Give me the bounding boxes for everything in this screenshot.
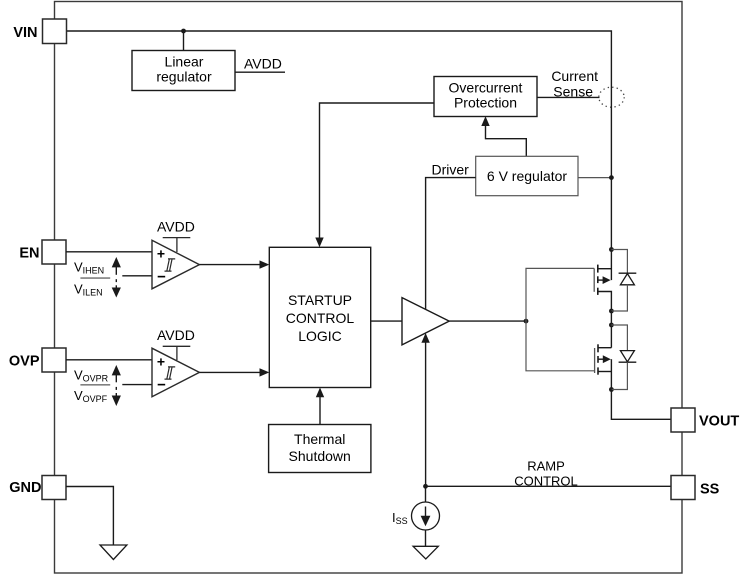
drain tap — [598, 347, 611, 349]
svg-text:Sense: Sense — [553, 84, 593, 100]
wire 6V regulator to overcurrent protection — [486, 123, 527, 156]
node ramp control junction — [423, 484, 428, 489]
source tap — [598, 292, 612, 312]
threshold rise arrow (EN) — [115, 266, 117, 275]
gate bus — [526, 268, 595, 370]
wire GND to ground symbol — [66, 487, 113, 546]
node Q2 source — [609, 387, 614, 392]
comparator U2 (EN) — [152, 240, 199, 288]
thermal shutdown block — [269, 425, 371, 473]
wire OVP to comparator + — [66, 359, 152, 361]
wire OVP comparator output — [199, 371, 262, 373]
svg-text:Protection: Protection — [454, 95, 517, 111]
startup control logic block — [269, 247, 370, 387]
net AVDD output wire — [235, 71, 285, 73]
threshold fall arrow (OVP) — [115, 393, 117, 397]
svg-text:VOVPR: VOVPR — [74, 368, 109, 384]
svg-text:ISS: ISS — [392, 510, 408, 526]
transistor Q1 (top FET) — [594, 250, 611, 312]
body tap with arrow — [598, 358, 603, 360]
node gate bus junction — [524, 319, 529, 324]
threshold fall arrow (EN) — [115, 285, 117, 289]
threshold rise arrow (OVP) — [115, 374, 117, 382]
svg-text:AVDD: AVDD — [244, 56, 282, 72]
pin GND — [42, 476, 66, 500]
wire OVP comparator - input — [122, 384, 152, 386]
svg-text:Linear: Linear — [165, 54, 204, 70]
svg-text:Overcurrent: Overcurrent — [449, 80, 523, 96]
wire buffer output to gate bus — [449, 320, 526, 322]
ground (GND pin) — [100, 545, 127, 560]
pin OVP — [42, 348, 66, 372]
svg-text:AVDD: AVDD — [157, 219, 195, 235]
6 V regulator block — [476, 156, 578, 195]
svg-text:SS: SS — [700, 482, 720, 498]
wire junction to linear regulator — [183, 31, 185, 51]
wire EN to comparator + — [66, 251, 152, 253]
svg-text:6 V regulator: 6 V regulator — [487, 168, 567, 184]
transistor Q2 (bottom FET) — [595, 325, 612, 390]
wire EN comparator output — [199, 264, 262, 266]
drain tap — [598, 268, 612, 270]
svg-text:regulator: regulator — [156, 69, 212, 85]
svg-text:Thermal: Thermal — [294, 431, 345, 447]
body tap with arrow — [598, 279, 603, 281]
wire junction to current source — [425, 486, 427, 502]
wire rail between FETs — [610, 311, 612, 325]
buffer driver triangle — [402, 298, 449, 345]
arrowhead into buffer bottom — [421, 333, 429, 343]
body-source vertical — [610, 359, 612, 389]
drain-body vertical — [610, 250, 612, 281]
channel segments — [597, 265, 599, 273]
hysteresis glyph — [165, 367, 176, 379]
channel segments — [597, 344, 599, 352]
gate bar — [594, 348, 596, 373]
svg-text:VOUT: VOUT — [699, 414, 739, 430]
body diode D2 — [611, 325, 636, 390]
svg-text:OVP: OVP — [9, 354, 40, 370]
wire overcurrent sense tap — [537, 96, 600, 98]
hysteresis glyph — [165, 259, 176, 271]
node Q1 source — [609, 309, 614, 314]
svg-text:RAMP: RAMP — [527, 459, 565, 474]
wire current source to ground — [425, 530, 427, 546]
wire rail down from sense to top FET — [610, 97, 612, 250]
ground (ISS) — [413, 546, 438, 559]
drain vertical — [610, 325, 612, 348]
gate bar — [593, 268, 595, 291]
wire driver supply to buffer — [426, 178, 476, 310]
svg-text:VILEN: VILEN — [74, 282, 103, 298]
wire ramp control to SS — [426, 485, 672, 487]
svg-text:LOGIC: LOGIC — [298, 328, 342, 344]
source tap — [598, 371, 611, 373]
pin VOUT — [671, 408, 695, 432]
svg-text:AVDD: AVDD — [157, 327, 195, 343]
threshold divider line — [80, 384, 110, 386]
svg-text:VIN: VIN — [13, 25, 37, 41]
arrowhead into overcurrent bottom — [481, 116, 489, 126]
current source ISS — [412, 502, 440, 530]
svg-text:GND: GND — [9, 480, 41, 496]
svg-text:VOVPF: VOVPF — [74, 388, 108, 404]
arrowhead into startup logic (OVP) — [260, 368, 270, 376]
wire EN comparator - input — [122, 275, 152, 277]
wire Q2 source to VOUT — [611, 390, 671, 420]
comparator U3 (OVP) — [152, 348, 199, 397]
pin EN — [42, 240, 66, 264]
svg-text:+: + — [157, 354, 165, 370]
wire ramp control from buffer bottom — [425, 340, 427, 486]
svg-text:CONTROL: CONTROL — [286, 310, 355, 326]
svg-text:+: + — [157, 246, 165, 262]
pin SS — [671, 476, 695, 500]
wire 6V regulator to rail — [578, 177, 611, 179]
node rail/6V junction — [609, 175, 614, 180]
threshold divider line — [80, 277, 110, 279]
node Q2 drain — [609, 323, 614, 328]
wire startup logic to buffer — [371, 320, 402, 322]
svg-text:EN: EN — [19, 246, 39, 262]
current sense probe circle — [599, 87, 624, 107]
node Q1 drain — [609, 247, 614, 252]
arrowhead into startup logic top — [315, 238, 323, 248]
wire VIN to right rail — [67, 31, 612, 97]
overcurrent protection block — [434, 77, 537, 117]
wire overcurrent to startup logic — [320, 103, 435, 240]
body diode D1 — [611, 250, 636, 312]
svg-text:VIHEN: VIHEN — [74, 260, 104, 276]
svg-text:Current: Current — [551, 68, 598, 84]
svg-text:CONTROL: CONTROL — [514, 474, 578, 489]
svg-text:Shutdown: Shutdown — [289, 448, 351, 464]
svg-text:Driver: Driver — [432, 162, 470, 178]
wire thermal shutdown to startup logic — [319, 394, 321, 425]
arrowhead into startup logic (EN) — [260, 260, 270, 268]
arrowhead into startup logic bottom — [316, 388, 324, 398]
linear regulator U1 — [132, 51, 235, 91]
node VIN/linear-regulator junction — [181, 29, 186, 34]
svg-text:STARTUP: STARTUP — [288, 292, 352, 308]
pin VIN — [43, 19, 67, 44]
